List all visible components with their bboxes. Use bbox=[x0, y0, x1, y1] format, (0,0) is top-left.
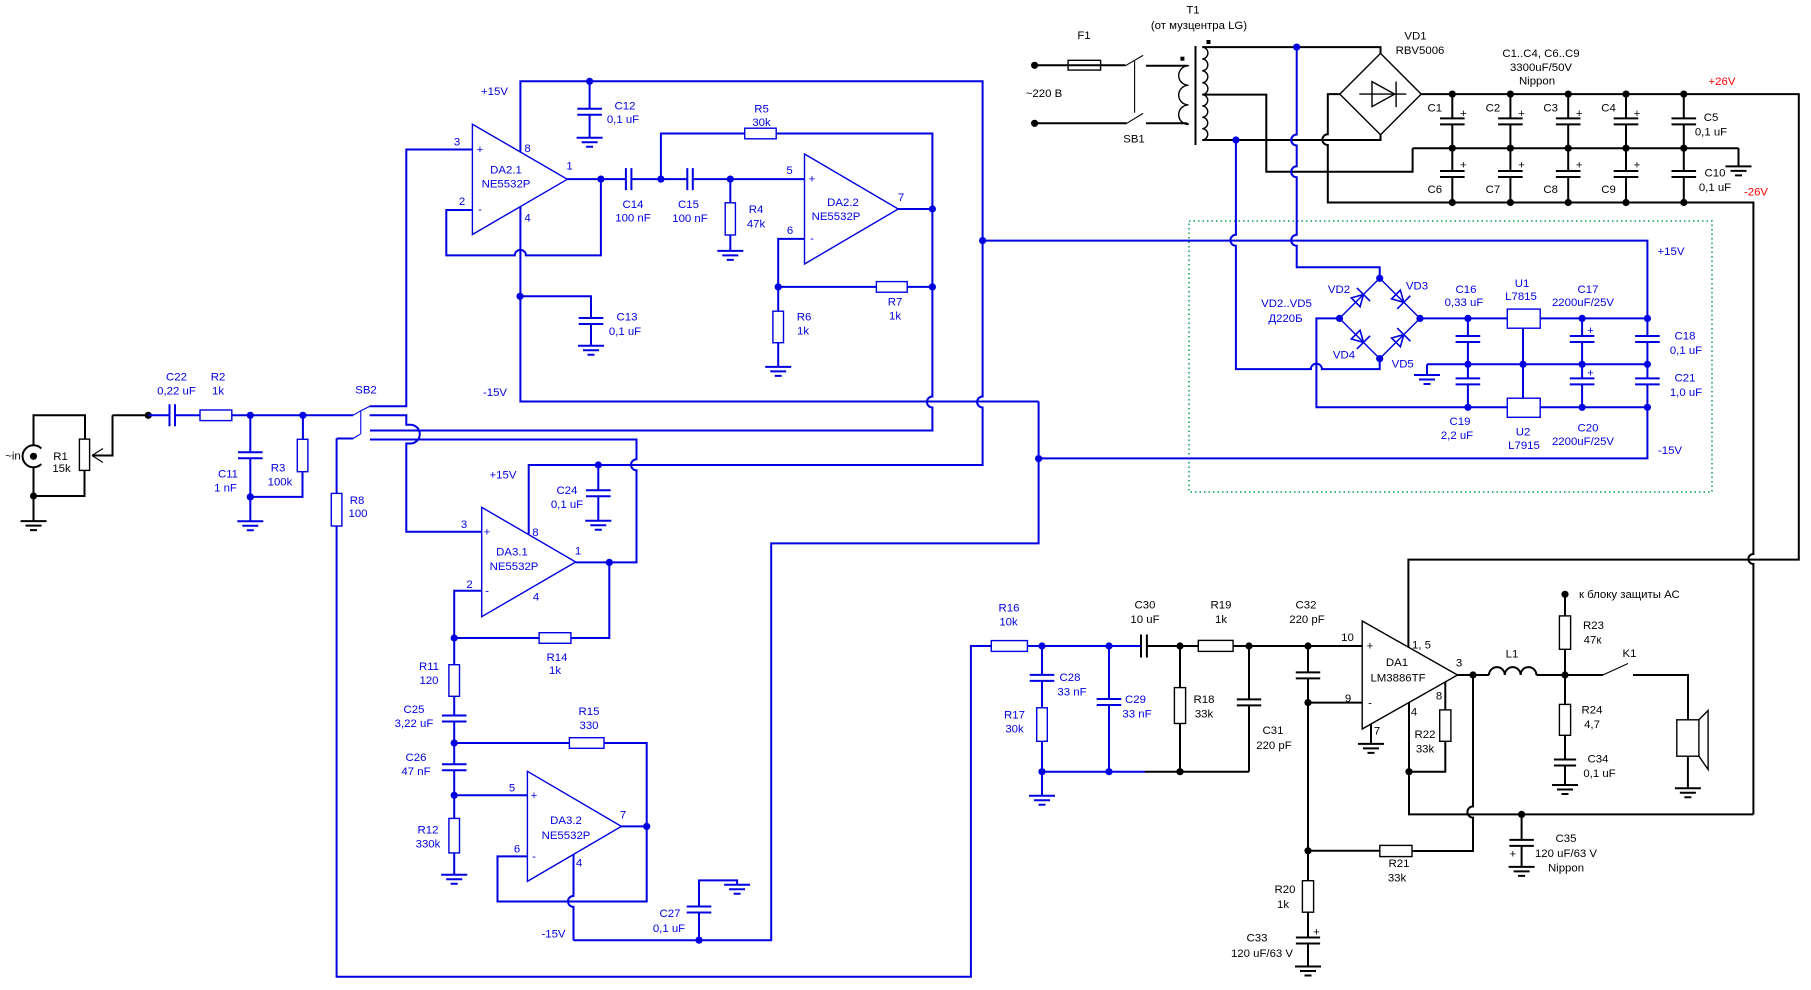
svg-text:LM3886TF: LM3886TF bbox=[1370, 673, 1425, 685]
svg-text:7: 7 bbox=[620, 810, 626, 822]
svg-text:C28: C28 bbox=[1060, 672, 1081, 684]
svg-text:9: 9 bbox=[1345, 693, 1351, 705]
svg-text:7: 7 bbox=[898, 192, 904, 204]
svg-text:VD5: VD5 bbox=[1392, 359, 1414, 371]
svg-text:C19: C19 bbox=[1450, 416, 1471, 428]
svg-text:1: 1 bbox=[566, 161, 572, 173]
svg-text:+: + bbox=[1576, 160, 1583, 172]
svg-text:3300uF/50V: 3300uF/50V bbox=[1510, 62, 1572, 74]
svg-text:C25: C25 bbox=[404, 704, 425, 716]
svg-text:C18: C18 bbox=[1675, 331, 1696, 343]
svg-text:+: + bbox=[1587, 368, 1594, 380]
svg-text:330: 330 bbox=[579, 720, 598, 732]
svg-text:10: 10 bbox=[1341, 632, 1354, 644]
svg-text:-: - bbox=[532, 851, 536, 863]
svg-text:3: 3 bbox=[1456, 658, 1462, 670]
svg-text:1k: 1k bbox=[797, 326, 809, 338]
svg-text:+15V: +15V bbox=[481, 86, 508, 98]
svg-text:NE5532P: NE5532P bbox=[812, 211, 861, 223]
svg-text:DA3.2: DA3.2 bbox=[550, 815, 582, 827]
svg-text:2: 2 bbox=[466, 579, 472, 591]
svg-text:+26V: +26V bbox=[1709, 76, 1736, 88]
svg-text:C1: C1 bbox=[1428, 103, 1443, 115]
svg-text:7: 7 bbox=[1374, 726, 1380, 738]
svg-text:0,1 uF: 0,1 uF bbox=[653, 923, 685, 935]
svg-text:R24: R24 bbox=[1582, 705, 1603, 717]
svg-text:C9: C9 bbox=[1601, 184, 1616, 196]
svg-text:к блоку защиты АС: к блоку защиты АС bbox=[1579, 589, 1680, 601]
svg-text:VD2..VD5: VD2..VD5 bbox=[1261, 298, 1312, 310]
svg-text:R2: R2 bbox=[211, 372, 226, 384]
svg-text:2200uF/25V: 2200uF/25V bbox=[1552, 436, 1614, 448]
svg-text:+: + bbox=[1460, 108, 1467, 120]
svg-text:5: 5 bbox=[509, 783, 515, 795]
svg-text:Д220Б: Д220Б bbox=[1268, 313, 1302, 325]
svg-text:R1: R1 bbox=[53, 451, 68, 463]
svg-text:~220 В: ~220 В bbox=[1026, 88, 1062, 100]
svg-text:C2: C2 bbox=[1486, 103, 1501, 115]
svg-text:0,22 uF: 0,22 uF bbox=[157, 386, 196, 398]
svg-text:DA2.2: DA2.2 bbox=[827, 197, 859, 209]
svg-text:1, 5: 1, 5 bbox=[1412, 640, 1431, 652]
svg-text:0,1 uF: 0,1 uF bbox=[607, 114, 639, 126]
svg-text:-15V: -15V bbox=[483, 387, 507, 399]
svg-text:100 nF: 100 nF bbox=[672, 213, 708, 225]
svg-text:0,33 uF: 0,33 uF bbox=[1445, 297, 1484, 309]
svg-text:VD4: VD4 bbox=[1333, 350, 1355, 362]
svg-text:8: 8 bbox=[532, 527, 538, 539]
svg-text:R23: R23 bbox=[1583, 620, 1604, 632]
svg-text:+: + bbox=[1518, 160, 1525, 172]
svg-text:330k: 330k bbox=[416, 839, 441, 851]
svg-text:NE5532P: NE5532P bbox=[542, 830, 591, 842]
svg-text:-: - bbox=[810, 233, 814, 245]
svg-text:220 pF: 220 pF bbox=[1289, 614, 1325, 626]
svg-text:C6: C6 bbox=[1428, 184, 1443, 196]
svg-text:220 pF: 220 pF bbox=[1256, 740, 1292, 752]
svg-text:1k: 1k bbox=[549, 665, 561, 677]
svg-text:C29: C29 bbox=[1125, 694, 1146, 706]
svg-text:F1: F1 bbox=[1077, 30, 1090, 42]
svg-text:8: 8 bbox=[1436, 691, 1442, 703]
svg-text:R14: R14 bbox=[547, 652, 568, 664]
svg-text:-26V: -26V bbox=[1744, 187, 1768, 199]
svg-text:C24: C24 bbox=[557, 485, 578, 497]
svg-text:C10: C10 bbox=[1705, 168, 1726, 180]
svg-text:Nippon: Nippon bbox=[1548, 863, 1584, 875]
svg-text:0,1 uF: 0,1 uF bbox=[1670, 345, 1702, 357]
svg-text:R5: R5 bbox=[754, 104, 769, 116]
svg-text:NE5532P: NE5532P bbox=[482, 179, 531, 191]
svg-text:Nippon: Nippon bbox=[1519, 76, 1555, 88]
svg-text:SB1: SB1 bbox=[1123, 134, 1145, 146]
svg-text:1k: 1k bbox=[1215, 614, 1227, 626]
svg-text:+: + bbox=[809, 174, 816, 186]
svg-text:R16: R16 bbox=[999, 603, 1020, 615]
svg-text:DA1: DA1 bbox=[1386, 657, 1408, 669]
svg-text:8: 8 bbox=[524, 143, 530, 155]
svg-text:2,2 uF: 2,2 uF bbox=[1441, 430, 1473, 442]
svg-text:33k: 33k bbox=[1195, 709, 1214, 721]
svg-text:RBV5006: RBV5006 bbox=[1396, 45, 1445, 57]
svg-text:120: 120 bbox=[419, 675, 438, 687]
svg-text:3,22 uF: 3,22 uF bbox=[395, 718, 434, 730]
svg-text:1k: 1k bbox=[212, 386, 224, 398]
svg-text:VD1: VD1 bbox=[1404, 31, 1426, 43]
svg-text:4: 4 bbox=[533, 592, 539, 604]
svg-text:C1..C4, C6..C9: C1..C4, C6..C9 bbox=[1502, 48, 1579, 60]
svg-text:C12: C12 bbox=[615, 101, 636, 113]
svg-text:R4: R4 bbox=[749, 204, 764, 216]
svg-text:C33: C33 bbox=[1247, 933, 1268, 945]
svg-text:0,1 uF: 0,1 uF bbox=[1583, 768, 1615, 780]
svg-text:C8: C8 bbox=[1543, 184, 1558, 196]
svg-text:10 uF: 10 uF bbox=[1130, 614, 1159, 626]
svg-text:100k: 100k bbox=[268, 477, 293, 489]
svg-text:33k: 33k bbox=[1416, 744, 1435, 756]
svg-text:10k: 10k bbox=[999, 617, 1018, 629]
svg-text:C22: C22 bbox=[166, 372, 187, 384]
svg-text:DA3.1: DA3.1 bbox=[496, 547, 528, 559]
svg-text:-: - bbox=[485, 586, 489, 598]
svg-text:1,0 uF: 1,0 uF bbox=[1670, 387, 1702, 399]
svg-text:6: 6 bbox=[514, 844, 520, 856]
svg-text:2200uF/25V: 2200uF/25V bbox=[1552, 297, 1614, 309]
svg-text:C20: C20 bbox=[1578, 423, 1599, 435]
svg-text:C32: C32 bbox=[1296, 600, 1317, 612]
svg-text:U2: U2 bbox=[1516, 427, 1531, 439]
svg-text:100: 100 bbox=[348, 508, 367, 520]
svg-text:C17: C17 bbox=[1578, 284, 1599, 296]
svg-text:0,1 uF: 0,1 uF bbox=[551, 499, 583, 511]
svg-text:+: + bbox=[531, 790, 538, 802]
svg-text:+: + bbox=[1367, 641, 1374, 653]
svg-text:+: + bbox=[1509, 849, 1516, 861]
svg-text:L7915: L7915 bbox=[1508, 440, 1540, 452]
svg-text:-: - bbox=[478, 204, 482, 216]
svg-text:1: 1 bbox=[575, 546, 581, 558]
svg-text:+15V: +15V bbox=[1658, 246, 1685, 258]
svg-text:-: - bbox=[1368, 698, 1372, 710]
svg-text:15k: 15k bbox=[52, 463, 71, 475]
svg-text:C14: C14 bbox=[623, 199, 644, 211]
svg-text:120 uF/63 V: 120 uF/63 V bbox=[1231, 948, 1293, 960]
svg-text:47k: 47k bbox=[747, 219, 766, 231]
svg-text:4: 4 bbox=[524, 213, 530, 225]
svg-text:VD2: VD2 bbox=[1328, 284, 1350, 296]
svg-text:6: 6 bbox=[787, 225, 793, 237]
svg-text:R7: R7 bbox=[888, 297, 903, 309]
svg-text:C30: C30 bbox=[1135, 600, 1156, 612]
svg-text:+15V: +15V bbox=[490, 470, 517, 482]
svg-text:4: 4 bbox=[576, 858, 582, 870]
svg-text:C15: C15 bbox=[678, 199, 699, 211]
svg-text:C34: C34 bbox=[1588, 754, 1609, 766]
svg-text:L7815: L7815 bbox=[1505, 291, 1537, 303]
svg-text:+: + bbox=[1460, 160, 1467, 172]
svg-text:+: + bbox=[1634, 160, 1641, 172]
svg-text:R21: R21 bbox=[1389, 858, 1410, 870]
svg-text:C16: C16 bbox=[1456, 284, 1477, 296]
svg-text:+: + bbox=[1634, 108, 1641, 120]
svg-text:4,7: 4,7 bbox=[1584, 719, 1600, 731]
svg-text:3: 3 bbox=[461, 519, 467, 531]
svg-text:33 nF: 33 nF bbox=[1057, 687, 1086, 699]
svg-text:K1: K1 bbox=[1623, 648, 1637, 660]
svg-text:R20: R20 bbox=[1275, 884, 1296, 896]
svg-text:+: + bbox=[1518, 108, 1525, 120]
svg-text:0,1 uF: 0,1 uF bbox=[1695, 127, 1727, 139]
svg-text:33 nF: 33 nF bbox=[1122, 709, 1151, 721]
svg-text:C27: C27 bbox=[660, 908, 681, 920]
svg-text:VD3: VD3 bbox=[1406, 281, 1428, 293]
svg-text:C21: C21 bbox=[1675, 373, 1696, 385]
svg-text:L1: L1 bbox=[1506, 649, 1519, 661]
svg-text:C5: C5 bbox=[1704, 112, 1719, 124]
svg-text:C26: C26 bbox=[406, 752, 427, 764]
svg-text:DA2.1: DA2.1 bbox=[490, 165, 522, 177]
svg-text:4: 4 bbox=[1411, 707, 1417, 719]
svg-text:C13: C13 bbox=[617, 312, 638, 324]
svg-text:C3: C3 bbox=[1543, 103, 1558, 115]
svg-text:T1: T1 bbox=[1186, 5, 1199, 17]
svg-text:R19: R19 bbox=[1211, 600, 1232, 612]
svg-text:2: 2 bbox=[459, 196, 465, 208]
svg-text:0,1 uF: 0,1 uF bbox=[609, 326, 641, 338]
svg-text:+: + bbox=[484, 527, 491, 539]
svg-text:SB2: SB2 bbox=[355, 385, 377, 397]
svg-text:-15V: -15V bbox=[541, 929, 565, 941]
svg-text:R3: R3 bbox=[271, 463, 286, 475]
svg-text:-15V: -15V bbox=[1658, 445, 1682, 457]
svg-text:R8: R8 bbox=[350, 495, 365, 507]
svg-text:R6: R6 bbox=[797, 312, 812, 324]
svg-text:33k: 33k bbox=[1388, 873, 1407, 885]
svg-text:1 nF: 1 nF bbox=[214, 483, 237, 495]
svg-text:5: 5 bbox=[786, 165, 792, 177]
svg-text:R11: R11 bbox=[419, 661, 439, 673]
svg-text:C35: C35 bbox=[1556, 833, 1577, 845]
svg-text:+: + bbox=[1313, 927, 1320, 939]
svg-text:C11: C11 bbox=[218, 469, 238, 481]
svg-text:+: + bbox=[1587, 325, 1594, 337]
svg-text:C7: C7 bbox=[1486, 184, 1501, 196]
svg-text:R18: R18 bbox=[1194, 694, 1215, 706]
svg-text:100 nF: 100 nF bbox=[615, 213, 651, 225]
svg-text:0,1 uF: 0,1 uF bbox=[1699, 182, 1731, 194]
svg-text:+: + bbox=[477, 144, 484, 156]
svg-text:47 nF: 47 nF bbox=[401, 766, 430, 778]
svg-text:(от музцентра LG): (от музцентра LG) bbox=[1151, 20, 1247, 32]
svg-text:+: + bbox=[1576, 108, 1583, 120]
svg-text:R12: R12 bbox=[418, 825, 439, 837]
svg-text:C31: C31 bbox=[1263, 725, 1284, 737]
svg-text:3: 3 bbox=[454, 137, 460, 149]
svg-text:1k: 1k bbox=[1277, 899, 1289, 911]
svg-text:C4: C4 bbox=[1601, 103, 1616, 115]
svg-text:1k: 1k bbox=[889, 311, 901, 323]
svg-text:47к: 47к bbox=[1584, 635, 1603, 647]
svg-text:R22: R22 bbox=[1415, 729, 1436, 741]
svg-text:NE5532P: NE5532P bbox=[490, 561, 539, 573]
svg-text:120 uF/63 V: 120 uF/63 V bbox=[1535, 848, 1597, 860]
svg-text:~in: ~in bbox=[5, 451, 21, 463]
svg-text:R17: R17 bbox=[1004, 710, 1025, 722]
svg-text:R15: R15 bbox=[579, 706, 600, 718]
svg-text:30k: 30k bbox=[752, 117, 771, 129]
svg-text:U1: U1 bbox=[1515, 278, 1530, 290]
svg-text:30k: 30k bbox=[1005, 724, 1024, 736]
